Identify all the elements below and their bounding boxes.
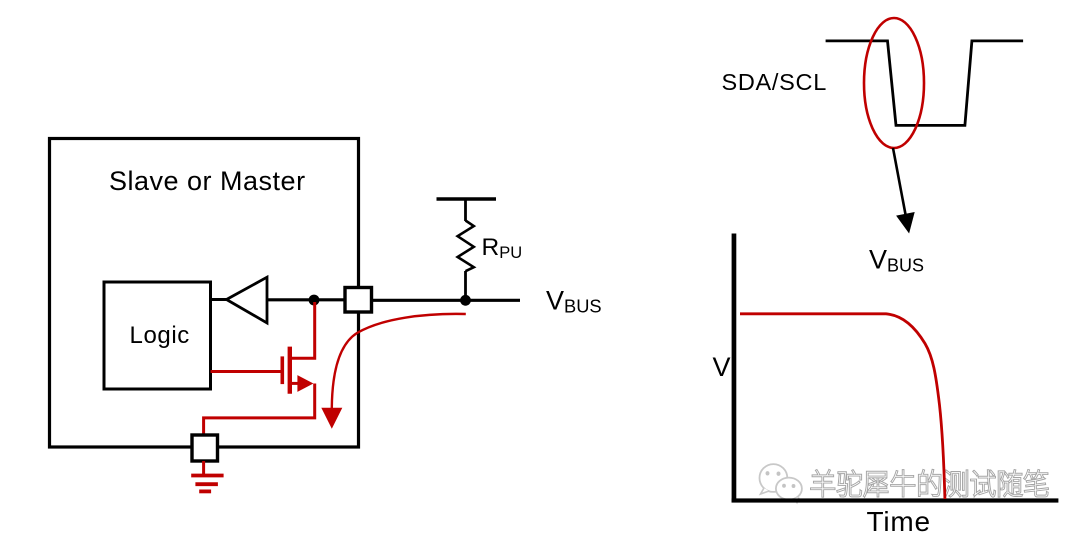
supply rail bar — [437, 197, 497, 200]
device box U1 (Slave or Master) — [50, 139, 359, 448]
logic block — [104, 282, 211, 389]
wire source to ground pad — [204, 384, 315, 437]
ground bar 3 — [199, 489, 211, 493]
transistor Q1 gate lead (red) — [211, 370, 284, 373]
wire rail to resistor — [464, 199, 467, 221]
waveform SDA/SCL trace — [826, 41, 1024, 126]
svg-text:V: V — [713, 352, 731, 382]
current flow arrow (red curved, sink current path) — [332, 314, 466, 408]
transistor Q1 drain lead to node A — [290, 302, 315, 358]
ground bar 2 — [195, 482, 218, 486]
node B (junction dot under resistor) — [460, 295, 471, 306]
graph X axis — [732, 498, 1059, 502]
svg-text:VBUS: VBUS — [869, 244, 924, 275]
ground stem (red) — [202, 461, 205, 475]
VBUS discharge curve (red) — [740, 314, 945, 499]
svg-text:SDA/SCL: SDA/SCL — [722, 69, 827, 95]
transistor Q1 channel bar — [288, 347, 292, 394]
svg-text:Time: Time — [867, 506, 931, 533]
wire resistor to node B — [464, 271, 467, 301]
svg-text:Slave or Master: Slave or Master — [109, 166, 306, 196]
ground bar 1 — [191, 474, 223, 478]
watermark text (outlined CJK glyph paths) — [811, 470, 1048, 497]
pad P1 (I/O pad square on box edge) — [345, 288, 372, 313]
wire pad to VBUS — [372, 299, 521, 302]
wire logic output to buffer tip — [211, 298, 229, 301]
node A (junction dot on output net) — [309, 295, 320, 306]
buffer U2 (input buffer triangle) — [227, 277, 268, 323]
svg-text:Logic: Logic — [130, 322, 190, 349]
svg-text:RPU: RPU — [482, 234, 523, 262]
wire buffer to pad — [267, 298, 346, 301]
transistor Q1 gate bar — [280, 356, 284, 384]
watermark logo (chat bubbles) — [760, 464, 802, 502]
highlight ellipse around falling edge (red) — [864, 18, 924, 148]
transistor Q1 source lead with body arrow — [290, 382, 300, 385]
pad P2 (ground pad square on box edge) — [192, 435, 218, 461]
pointer arrow from ellipse to VBUS graph — [893, 148, 906, 216]
resistor RPU — [458, 221, 474, 272]
svg-text:VBUS: VBUS — [546, 285, 602, 316]
graph Y axis — [732, 234, 737, 503]
